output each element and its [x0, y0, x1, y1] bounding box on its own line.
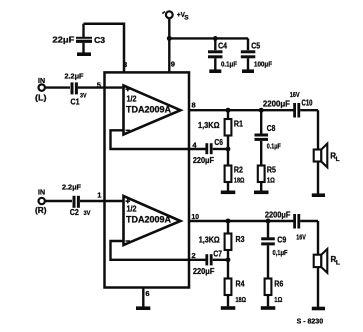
ground (speaker L): [312, 193, 325, 197]
wire IN(R) to C2: [45, 200, 72, 202]
svg-text:C9: C9: [277, 235, 286, 244]
wire C6 to R1/R2 node: [213, 148, 228, 150]
svg-text:8: 8: [192, 101, 196, 110]
svg-text:18Ω: 18Ω: [236, 297, 247, 304]
wire bottom feedback loop (pin 2): [111, 241, 206, 260]
svg-text:3V: 3V: [84, 210, 92, 217]
resistor R4 18ohm: [225, 279, 232, 307]
svg-text:220μF: 220μF: [193, 267, 215, 276]
svg-text:C7: C7: [213, 250, 222, 259]
svg-text:TDA2009A: TDA2009A: [126, 104, 171, 114]
ground (C3): [77, 52, 91, 56]
wire C3 to pin 3: [84, 24, 125, 73]
svg-text:0.1μF: 0.1μF: [267, 144, 282, 151]
op-amp U2 (1/2 TDA2009A bottom): [124, 196, 181, 245]
supply terminal +VS: [166, 11, 173, 18]
svg-text:2.2μF: 2.2μF: [65, 71, 84, 80]
op-amp U1 (1/2 TDA2009A top): [124, 86, 181, 135]
svg-text:3: 3: [123, 60, 127, 69]
svg-text:2200μF: 2200μF: [265, 211, 291, 220]
capacitor 2200uF 16V (bottom): [295, 214, 318, 229]
input terminal IN (L): [39, 84, 45, 90]
capacitor C6 220uF: [207, 143, 211, 154]
svg-text:10: 10: [192, 212, 200, 221]
wire pin 10 output rail: [189, 220, 294, 222]
capacitor C9 0.1uF: [261, 221, 275, 280]
capacitor C4 0.1uF: [208, 38, 223, 69]
node supply junction: [167, 36, 172, 41]
svg-text:1: 1: [97, 191, 101, 200]
svg-text:2200μF: 2200μF: [263, 100, 290, 109]
svg-text:L: L: [336, 156, 340, 163]
wire supply rail to C4 C5: [169, 37, 248, 39]
ground (R6): [261, 306, 276, 310]
node C8 tap: [259, 108, 264, 113]
resistor R3 1.3Kohm: [225, 221, 232, 279]
svg-text:IN: IN: [38, 76, 45, 85]
svg-text:6: 6: [145, 289, 149, 298]
svg-text:C2: C2: [70, 208, 79, 217]
speaker RL (top): [314, 144, 328, 168]
svg-text:9: 9: [171, 60, 175, 69]
wire top feedback loop (pin 4): [111, 130, 206, 149]
svg-text:L: L: [336, 259, 340, 266]
svg-text:18Ω: 18Ω: [234, 178, 245, 185]
svg-text:0.1μF: 0.1μF: [221, 61, 238, 68]
capacitor C5 100uF: [241, 38, 256, 69]
node R3 tap: [226, 219, 231, 224]
svg-text:R3: R3: [236, 235, 245, 244]
input terminal IN (R): [39, 198, 45, 204]
svg-text:S - 8230: S - 8230: [297, 319, 324, 326]
svg-text:R4: R4: [236, 280, 245, 289]
svg-text:2.2μF: 2.2μF: [62, 183, 81, 192]
svg-text:1/2: 1/2: [127, 205, 137, 214]
svg-text:IN: IN: [38, 187, 45, 196]
wire C10 to speaker L: [317, 110, 319, 149]
capacitor C1 2.2uF: [72, 82, 76, 94]
svg-text:5: 5: [97, 80, 101, 89]
svg-text:1Ω: 1Ω: [267, 178, 275, 185]
ground (R5): [254, 191, 269, 195]
svg-text:C10: C10: [302, 99, 313, 108]
wire C1 to pin 5: [78, 86, 124, 88]
wire C2 to pin 1: [80, 200, 124, 202]
capacitor C10 2200uF 16V: [295, 103, 318, 118]
node R1/R2 junction: [226, 147, 231, 152]
capacitor C8 0.1uF: [255, 110, 269, 165]
capacitor C7 220uF: [207, 254, 211, 265]
svg-text:1,3KΩ: 1,3KΩ: [198, 121, 220, 130]
resistor R1 1.3Kohm: [225, 110, 232, 165]
speaker RL (bottom): [314, 249, 328, 273]
svg-text:(L): (L): [35, 93, 47, 102]
wire speaker R to ground: [317, 267, 319, 307]
capacitor C2 2.2uF: [74, 196, 78, 208]
svg-text:1/2: 1/2: [127, 95, 137, 104]
resistor R5 1ohm: [258, 166, 265, 191]
wire C7 to R3/R4 node: [213, 259, 228, 261]
capacitor C3 22uF: [76, 24, 92, 53]
svg-text:100μF: 100μF: [254, 61, 273, 68]
ground (speaker R): [312, 307, 325, 311]
resistor R2 18ohm: [225, 166, 232, 191]
svg-text:C6: C6: [214, 138, 223, 147]
wire cap to speaker R: [317, 221, 319, 255]
wire +VS to pin 9: [168, 18, 170, 72]
svg-text:R1: R1: [234, 120, 243, 129]
wire pin 6 to ground: [142, 288, 144, 308]
ground (C4): [209, 69, 221, 73]
node R3/R4 junction: [226, 257, 231, 262]
wire speaker L to ground: [317, 162, 319, 194]
svg-text:R5: R5: [267, 165, 276, 174]
ground (C5): [242, 69, 254, 73]
svg-text:2: 2: [192, 251, 196, 260]
svg-text:220μF: 220μF: [193, 156, 214, 165]
svg-text:C3: C3: [94, 36, 106, 45]
svg-text:16V: 16V: [296, 234, 306, 241]
svg-text:C8: C8: [267, 124, 276, 133]
svg-text:C4: C4: [218, 42, 227, 51]
svg-text:16V: 16V: [290, 92, 300, 99]
svg-text:3V: 3V: [80, 92, 87, 99]
node R1 tap: [226, 108, 231, 113]
wire pin 8 output rail: [189, 109, 294, 111]
svg-text:(R): (R): [35, 206, 47, 215]
node C4 tap: [213, 36, 218, 41]
svg-text:S: S: [184, 15, 189, 22]
svg-text:R2: R2: [234, 165, 243, 174]
ground (pin 6): [136, 306, 150, 310]
svg-text:22μF: 22μF: [52, 35, 74, 44]
ground (R2): [221, 191, 236, 195]
svg-text:1Ω: 1Ω: [274, 297, 282, 304]
svg-text:R6: R6: [274, 280, 283, 289]
wire IN(L) to C1: [45, 86, 70, 88]
svg-text:TDA2009A: TDA2009A: [126, 214, 171, 224]
resistor R6 1ohm: [265, 279, 272, 307]
svg-text:1,3KΩ: 1,3KΩ: [199, 235, 221, 244]
svg-text:C1: C1: [71, 98, 80, 107]
IC package TDA2009A outline: [105, 72, 190, 287]
ground (R4): [221, 306, 236, 310]
node C9 tap: [266, 219, 271, 224]
svg-text:C5: C5: [251, 42, 260, 51]
svg-text:0,1μF: 0,1μF: [273, 250, 289, 257]
